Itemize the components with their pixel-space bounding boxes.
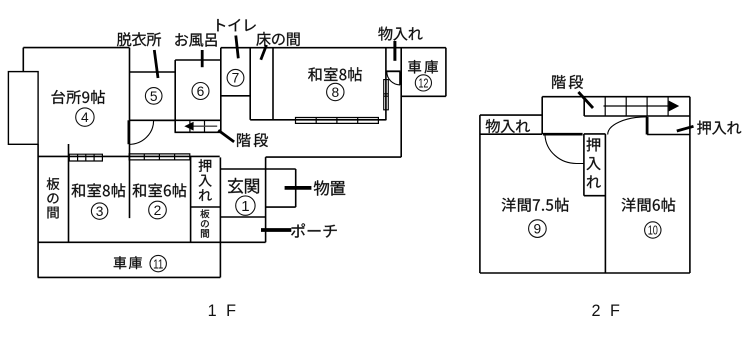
room label genkan — [228, 178, 259, 194]
monooki bottom wall — [266, 206, 296, 208]
1F outer wall: datsuijo top — [130, 71, 176, 73]
garage 12 bottom wall — [401, 95, 446, 97]
2F outer wall: top — [542, 96, 690, 98]
leader oshiire 2F right — [677, 126, 694, 131]
label monoire 1F — [378, 27, 422, 41]
1F outer wall: left side below bay window — [37, 144, 39, 277]
1F outer wall: ofuro top — [175, 59, 221, 61]
stairs 2F riser 3 — [646, 97, 648, 116]
svg-text:7: 7 — [232, 71, 240, 86]
leader kaidan 1F — [218, 130, 234, 142]
wall ofuro-toilet + stair right — [220, 48, 222, 133]
stairs 1F top edge (corridor wall) — [154, 119, 221, 121]
wall washitsu8(8) right / monoire left — [385, 48, 387, 121]
2F monoire bottom wall — [480, 133, 542, 135]
svg-text:1 F: 1 F — [208, 302, 239, 320]
1F outer wall: top right run — [221, 47, 446, 49]
stairs 1F riser 1 — [189, 120, 191, 132]
room number 7 toilet — [227, 69, 244, 86]
room number 9 — [529, 220, 547, 238]
divider oshiire/itanoma small — [191, 206, 221, 208]
stairs 1F riser 2 — [204, 120, 206, 132]
svg-text:5: 5 — [150, 89, 158, 104]
window symbol washitsu8(8) bottom — [296, 118, 379, 124]
kitchen bottom wall — [38, 155, 220, 157]
room number 5 datsuijo — [145, 88, 162, 105]
oshiire mid bottom wall — [584, 195, 606, 197]
room number 11 — [150, 255, 166, 271]
toilet bottom wall — [221, 95, 250, 97]
room label garage 11 — [114, 256, 142, 269]
garage11 bottom wall — [38, 276, 221, 278]
room number 3 — [91, 203, 107, 219]
svg-text:3: 3 — [96, 204, 104, 219]
1F outer wall: kitchen left — [22, 48, 24, 72]
door arc garage12 area — [387, 72, 400, 85]
leader kaidan 2F — [578, 92, 593, 108]
window symbol kitchen bottom left — [69, 154, 102, 161]
2F outer wall: left — [479, 115, 481, 273]
stairs 1F down-arrow — [193, 125, 217, 127]
room label yoma 6jo — [622, 198, 676, 212]
stairs 1F bottom edge — [175, 131, 221, 133]
wall washitsu6(2)/oshiire column — [190, 156, 192, 242]
label monooki — [314, 180, 345, 195]
label datsuijo — [117, 32, 161, 46]
2F outer wall: bottom — [480, 272, 690, 274]
oshiire mid top — [584, 133, 606, 135]
garage11 top wall + porch bottom — [38, 241, 266, 243]
leader datsuijo — [154, 50, 158, 78]
leader tokonoma — [261, 45, 267, 60]
stairs 2F riser 2 — [625, 97, 627, 116]
svg-text:6: 6 — [197, 84, 205, 99]
wall monoire/garage12 left + outer wall below — [400, 48, 402, 158]
svg-text:10: 10 — [648, 223, 658, 238]
wall toilet/tokonoma — [249, 48, 251, 120]
window symbol (vertical) monoire wall — [384, 80, 389, 110]
door arc datsuijo — [129, 121, 154, 145]
1F outer wall: kitchen top — [23, 47, 129, 49]
genkan bottom wall — [220, 216, 265, 218]
svg-text:9: 9 — [534, 222, 542, 237]
room label washitsu 8jo (8) — [308, 67, 362, 81]
label toilet — [217, 19, 256, 31]
svg-text:8: 8 — [331, 85, 339, 100]
room label garage 12 — [408, 60, 438, 73]
door leaf garage12 corridor (thick) — [399, 72, 401, 85]
label monoire 2F — [486, 119, 530, 133]
leader porch — [261, 228, 291, 232]
room number 4 — [76, 108, 94, 126]
stairs 2F up-arrow — [604, 105, 673, 107]
2F outer wall: right — [689, 97, 691, 273]
genkan right wall / monooki left / porch right — [265, 157, 267, 242]
label tokonoma — [256, 32, 299, 46]
monoire 1F bottom header — [386, 70, 401, 72]
window symbol kitchen bottom right — [129, 154, 190, 160]
label kaidan 1F — [237, 133, 268, 147]
room number 6 ofuro — [192, 83, 209, 100]
svg-text:11: 11 — [153, 256, 163, 271]
door leaf 2F (thick) — [646, 117, 649, 135]
datsuijo bottom wall (full, door drawn below) — [130, 119, 176, 121]
stairs 2F riser 1 — [604, 97, 606, 116]
room number 2 — [149, 201, 167, 219]
room label washitsu 6jo (2) — [133, 183, 187, 197]
wall itanoma/washitsu8(3) — [68, 144, 70, 242]
room number 8 — [327, 83, 344, 100]
1F outer wall: right side (garage 12) — [445, 48, 447, 97]
label itanoma small (vertical) — [200, 209, 209, 237]
stairs 2F riser 4 — [667, 97, 669, 116]
2F outer wall: notch vertical + monoire right — [541, 97, 543, 135]
wall tokonoma/washitsu8(8) — [272, 48, 274, 120]
1F outer wall: bottom right run — [266, 156, 402, 158]
room label kitchen 9jo — [52, 90, 105, 104]
genkan + monooki top wall — [220, 168, 295, 170]
leader ofuro — [201, 50, 204, 67]
svg-text:4: 4 — [81, 110, 89, 125]
door arc 2F left (yoma7.5 entrance) — [545, 136, 584, 164]
svg-text:1: 1 — [241, 198, 249, 215]
door arc 2F right (yoma6 entrance) — [608, 117, 647, 135]
oshiire top-right bottom wall / yoma6 top — [647, 134, 690, 136]
wall datsuijo/ofuro + stair left — [174, 60, 176, 132]
label porch — [291, 223, 337, 237]
label ofuro — [175, 33, 216, 46]
2F monoire top (outer wall) — [480, 114, 542, 116]
svg-text:2 F: 2 F — [592, 302, 623, 320]
washitsu8(8) bottom wall + tokonoma bottom — [250, 119, 386, 121]
oshiire mid left wall — [583, 134, 585, 196]
svg-text:2: 2 — [154, 203, 162, 218]
leader monooki — [285, 186, 312, 190]
room number 10 — [645, 222, 661, 238]
label kaidan 2F — [552, 75, 583, 89]
room number 12 — [415, 75, 431, 91]
wall oshiire column right / genkan left / garage11 right — [219, 157, 221, 277]
label oshiire 1F (vertical) — [199, 159, 212, 201]
bay window (kitchen left) — [8, 72, 38, 145]
leader monoire 1F — [393, 41, 396, 61]
leader toilet — [236, 36, 239, 59]
stairs 2F left edge — [583, 97, 585, 116]
label oshiire 2F right — [697, 121, 741, 135]
room label yoma 7.5jo — [502, 198, 569, 212]
door leaf datsuijo (thick) — [127, 120, 129, 144]
wall yoma7.5/yoma6 + oshiire right — [604, 134, 606, 273]
wall kitchen/hashigoshita + door leaf + wall room3/room2 — [129, 48, 131, 219]
room label washitsu 8jo (3) — [72, 183, 126, 197]
svg-text:12: 12 — [418, 76, 428, 91]
monooki right wall — [295, 169, 297, 207]
2F thick door header below landing — [543, 133, 583, 136]
label itanoma (vertical) — [47, 178, 60, 219]
room number 1 — [236, 196, 255, 215]
label oshiire 2F mid (vertical) — [587, 138, 601, 189]
stairs 2F bottom edge — [584, 115, 690, 117]
